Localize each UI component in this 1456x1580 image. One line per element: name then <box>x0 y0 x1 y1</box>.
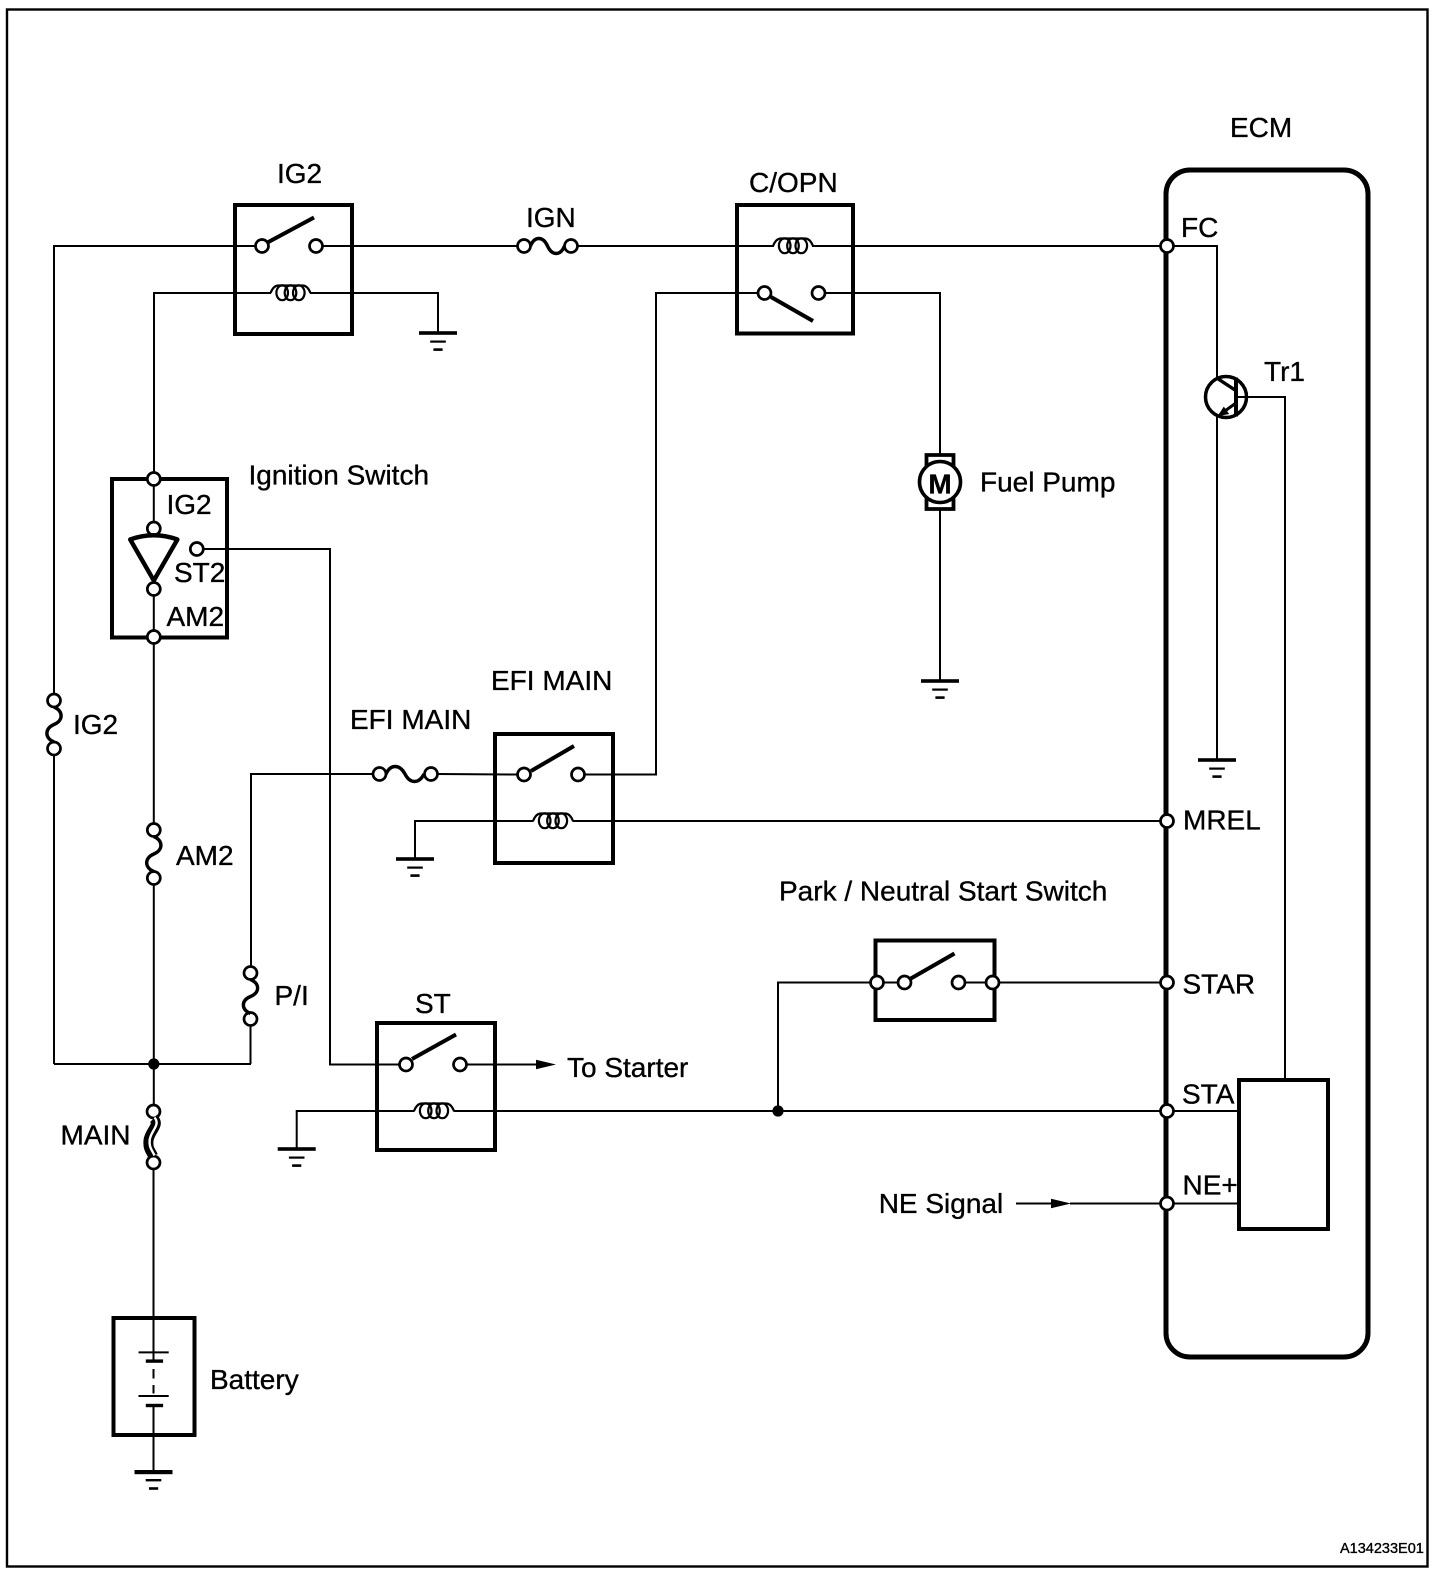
svg-text:Battery: Battery <box>210 1364 299 1395</box>
svg-text:M: M <box>928 469 951 500</box>
C/OPN relay contact right <box>812 287 825 300</box>
Tr1 circle <box>1206 377 1247 418</box>
svg-text:ST: ST <box>415 988 451 1019</box>
pin STAR <box>1161 976 1174 989</box>
wire fuse EFI MAIN to relay <box>438 773 518 776</box>
fuse EFI MAIN <box>373 767 438 782</box>
svg-text:Fuel Pump: Fuel Pump <box>980 467 1115 498</box>
ignition switch box <box>112 479 227 638</box>
wire IG2 coil to ground <box>310 293 438 332</box>
wire EFI feed to P/I fuse <box>250 774 252 967</box>
AM2 fuse terminal bottom <box>147 872 160 885</box>
svg-text:IG2: IG2 <box>73 709 118 740</box>
battery dashed link <box>153 1369 155 1379</box>
MAIN fusible link terminal top <box>147 1105 160 1118</box>
svg-text:C/OPN: C/OPN <box>749 167 838 198</box>
ignition switch contact AM2 <box>147 583 160 596</box>
ST relay coil <box>414 1103 454 1118</box>
wire junction to park/neutral switch <box>778 983 871 1112</box>
svg-text:MAIN: MAIN <box>61 1120 131 1151</box>
wire junction rail <box>54 1063 251 1065</box>
park/neutral switch arm <box>910 954 955 980</box>
wire battery bottom lead <box>153 1407 155 1435</box>
switch Ignition Switch <box>112 473 227 644</box>
Tr1 emitter lead <box>1220 403 1236 415</box>
node junction battery rail <box>148 1058 159 1069</box>
wire fuse AM2 to junction <box>153 885 155 1065</box>
ignition switch terminal IG2 top <box>147 473 160 486</box>
IG2 fuse element <box>47 707 61 742</box>
fuel pump motor circle <box>920 462 961 503</box>
EFI MAIN relay contact left <box>518 768 531 781</box>
ST relay contact left <box>400 1058 413 1071</box>
C/OPN relay box <box>737 205 853 334</box>
EFI MAIN relay contact right <box>572 768 585 781</box>
relay C/OPN <box>737 205 853 334</box>
transistor Tr1 <box>1206 377 1247 418</box>
EFI MAIN relay switch arm <box>531 746 574 771</box>
wire ST coil to ECM pin STA <box>454 1110 1161 1112</box>
wire IGN fuse to C/OPN coil <box>578 245 775 247</box>
EFI MAIN fuse element <box>386 767 424 782</box>
svg-text:IG2: IG2 <box>277 158 322 189</box>
MAIN fusible link terminal bottom <box>147 1156 160 1169</box>
P/I fuse element <box>243 980 257 1014</box>
relay ST <box>377 1023 495 1150</box>
wire ignition switch AM2 to fuse AM2 <box>153 644 155 824</box>
svg-text:To Starter: To Starter <box>567 1052 688 1083</box>
fuse IGN <box>518 239 578 254</box>
wire ST switch to starter arrow <box>467 1064 538 1066</box>
node junction STA / park-neutral <box>772 1105 783 1116</box>
svg-text:STAR: STAR <box>1183 969 1256 1000</box>
ground battery <box>135 1470 173 1490</box>
svg-text:Tr1: Tr1 <box>1264 356 1305 387</box>
wire IG2 fuse to junction rail <box>53 755 55 1065</box>
fuel pump top terminal bracket <box>927 455 954 466</box>
wire battery to ground <box>153 1435 155 1470</box>
svg-text:Ignition Switch: Ignition Switch <box>249 460 430 491</box>
park/neutral contact right <box>952 976 965 989</box>
wire FC to Tr1 collector <box>1174 246 1218 377</box>
park/neutral terminal left <box>871 976 884 989</box>
wire Tr1 emitter to ground <box>1216 416 1218 759</box>
fuse P/I <box>243 774 257 1064</box>
ignition switch contact IG2 <box>147 522 160 535</box>
ignition switch contact ST2 <box>190 543 203 556</box>
wire EFI MAIN coil to ground <box>415 821 534 858</box>
IG2 relay box <box>235 205 352 334</box>
C/OPN relay switch arm <box>771 297 813 321</box>
pin MREL <box>1161 815 1174 828</box>
wire IG2 coil to ignition switch <box>154 293 271 473</box>
wire EFI MAIN feed <box>250 773 373 775</box>
wire junction to MAIN link <box>153 1064 155 1105</box>
ignition switch terminal AM2 bottom <box>147 631 160 644</box>
AM2 fuse element <box>147 837 161 872</box>
svg-text:NE Signal: NE Signal <box>879 1188 1004 1219</box>
wire IG2 switch to IGN fuse <box>323 245 518 247</box>
ground ST relay <box>278 1147 316 1167</box>
ECM block outline <box>1166 170 1368 1357</box>
ground fuel pump <box>921 679 959 699</box>
svg-text:MREL: MREL <box>1183 805 1261 836</box>
ground IG2 relay <box>419 331 457 351</box>
EFI MAIN fuse terminal left <box>373 768 386 781</box>
IG2 fuse terminal top <box>48 694 61 707</box>
wire Tr1 base to internal block <box>1238 397 1285 1080</box>
ground Tr1 emitter <box>1198 758 1236 778</box>
wire NE+ pin to internal block <box>1174 1203 1240 1205</box>
IG2 fuse terminal bottom <box>48 742 61 755</box>
relay IG2 <box>235 205 352 334</box>
ST relay box <box>377 1023 495 1150</box>
Tr1 emitter arrow <box>1218 407 1230 417</box>
pin FC <box>1161 240 1174 253</box>
wire EFI MAIN coil to ECM pin MREL <box>573 820 1161 822</box>
wire MAIN link to battery <box>153 1169 155 1318</box>
wire battery top lead <box>153 1318 155 1360</box>
IGN fuse element <box>531 239 565 254</box>
wire C/OPN switch to fuel pump <box>825 293 940 454</box>
wire P/I fuse to junction rail <box>250 1026 252 1065</box>
EFI MAIN relay box <box>495 734 613 863</box>
IGN fuse terminal right <box>565 240 578 253</box>
svg-text:Park / Neutral Start Switch: Park / Neutral Start Switch <box>779 876 1107 907</box>
ECM internal block <box>1239 1080 1328 1229</box>
C/OPN relay contact left <box>758 287 771 300</box>
svg-text:STA: STA <box>1182 1079 1235 1110</box>
wire left terminal to contact <box>877 982 905 984</box>
motor fuel pump <box>920 455 961 509</box>
wire ST coil to ground <box>297 1111 415 1148</box>
svg-text:AM2: AM2 <box>167 601 225 632</box>
IG2 relay coil <box>271 285 311 300</box>
MAIN fusible link element <box>148 1119 155 1157</box>
wire park/neutral to ECM pin STAR <box>999 982 1161 984</box>
ST relay switch arm <box>412 1035 456 1060</box>
svg-text:A134233E01: A134233E01 <box>1340 1541 1424 1557</box>
IG2 relay switch arm <box>268 218 315 243</box>
wire contact to right terminal <box>959 982 993 984</box>
svg-text:NE+: NE+ <box>1183 1170 1238 1201</box>
fusible link MAIN <box>147 1105 160 1169</box>
wire IG2 switch to left rail <box>54 246 255 695</box>
IG2 relay contact left <box>256 240 269 253</box>
park/neutral start switch box <box>876 941 995 1021</box>
svg-text:ECM: ECM <box>1230 112 1292 143</box>
fuel pump bottom terminal bracket <box>927 498 954 509</box>
wire IG2 terminal to rotor <box>153 486 155 523</box>
wire C/OPN coil to ECM pin FC <box>812 245 1161 247</box>
svg-text:AM2: AM2 <box>176 840 234 871</box>
ground EFI MAIN <box>396 857 434 877</box>
switch Park / Neutral Start Switch <box>871 941 1000 1021</box>
battery plate positive 1 <box>139 1351 169 1353</box>
wire STA pin to internal block <box>1174 1110 1240 1112</box>
IG2 relay contact right <box>310 240 323 253</box>
EFI MAIN fuse terminal right <box>425 768 438 781</box>
relay EFI MAIN <box>495 734 613 863</box>
Tr1 collector lead <box>1218 379 1236 391</box>
svg-text:FC: FC <box>1181 212 1218 243</box>
wire ST2 to ST relay <box>203 549 399 1065</box>
park/neutral contact left <box>898 976 911 989</box>
fuse AM2 <box>147 824 161 885</box>
C/OPN relay coil <box>773 238 813 253</box>
park/neutral terminal right <box>986 976 999 989</box>
battery box <box>114 1318 195 1435</box>
ST relay contact right <box>454 1058 467 1071</box>
IGN fuse terminal left <box>518 240 531 253</box>
svg-text:IGN: IGN <box>526 202 576 233</box>
battery plate negative 1 <box>146 1359 163 1362</box>
wire C/OPN switch to EFI MAIN relay <box>585 293 759 775</box>
fuse IG2 <box>47 694 61 755</box>
svg-text:EFI MAIN: EFI MAIN <box>491 665 612 696</box>
P/I fuse terminal top <box>244 967 257 980</box>
svg-text:IG2: IG2 <box>167 489 212 520</box>
svg-text:P/I: P/I <box>275 980 309 1011</box>
pin STA <box>1161 1105 1174 1118</box>
battery <box>114 1318 195 1435</box>
wire fuel pump to ground <box>939 510 941 680</box>
EFI MAIN relay coil <box>533 813 573 828</box>
battery plate negative 2 <box>146 1404 163 1407</box>
wire rotor to AM2 terminal <box>153 596 155 631</box>
svg-text:EFI MAIN: EFI MAIN <box>350 704 471 735</box>
P/I fuse terminal bottom <box>244 1013 257 1026</box>
AM2 fuse terminal top <box>147 824 160 837</box>
pin NE+ <box>1161 1197 1174 1210</box>
wire NE signal input <box>1016 1203 1052 1205</box>
battery plate positive 2 <box>139 1395 169 1397</box>
ignition switch rotor cone <box>130 535 177 580</box>
Tr1 base bar <box>1234 378 1238 417</box>
svg-text:ST2: ST2 <box>174 557 225 588</box>
